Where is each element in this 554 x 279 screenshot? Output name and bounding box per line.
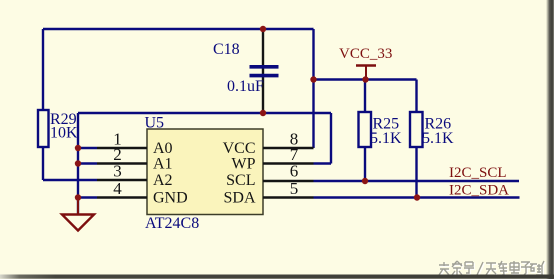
junction at GND row (75, 194, 81, 200)
wire I2C_SDA (314, 196, 520, 198)
svg-text:4: 4 (113, 179, 122, 198)
capacitor C18 (213, 29, 279, 113)
wire A0 row (78, 147, 97, 149)
svg-text:SCL: SCL (226, 172, 255, 189)
wire ground rail horizontal (78, 112, 331, 114)
resistor R25 (359, 80, 403, 182)
wire right vertical from top rail to pin8 (312, 29, 314, 148)
resistor R26 (410, 80, 454, 198)
svg-text:VCC_33: VCC_33 (339, 46, 392, 62)
svg-text:I2C_SCL: I2C_SCL (449, 165, 507, 181)
svg-text:5.1K: 5.1K (370, 130, 402, 147)
pin 6 SCL (226, 162, 313, 190)
svg-text:5: 5 (290, 179, 299, 198)
ground (62, 198, 94, 231)
svg-text:A1: A1 (153, 156, 173, 173)
junction at C18 bottom (260, 110, 266, 116)
wire A2 row from R29 (43, 179, 97, 181)
junction at A1 row (75, 160, 81, 166)
wire WP vertical (330, 113, 332, 164)
junction at VCC stem R25 (362, 76, 368, 82)
junction at R26 SDA (414, 194, 420, 200)
svg-text:A2: A2 (153, 172, 173, 189)
wire WP horizontal to pin7 (314, 162, 332, 164)
pin 3 A2 (97, 162, 173, 190)
svg-text:5.1K: 5.1K (422, 130, 454, 147)
pin 8 VCC (223, 130, 314, 158)
frame shadow right (546, 0, 554, 279)
op-amp U5 box AT24C8 (145, 115, 264, 233)
svg-text:C18: C18 (213, 41, 240, 58)
junction at A0 row (75, 145, 81, 151)
svg-text:0.1uF: 0.1uF (227, 78, 264, 95)
junction at R25 SCL (362, 178, 368, 184)
wire A1 row (78, 162, 97, 164)
pin 7 WP (232, 145, 314, 173)
svg-text:I2C_SDA: I2C_SDA (449, 183, 509, 199)
svg-text:WP: WP (232, 156, 256, 173)
pin 4 GND (97, 179, 188, 207)
wire GND row (78, 196, 97, 198)
junction at VCC rail left (310, 76, 316, 82)
svg-text:GND: GND (153, 190, 188, 207)
svg-text:AT24C8: AT24C8 (145, 215, 199, 232)
svg-text:SDA: SDA (223, 190, 255, 207)
wire I2C_SCL (314, 180, 520, 182)
svg-text:3: 3 (113, 162, 122, 181)
junction at C18 top (260, 26, 266, 32)
frame shadow bottom (0, 275, 554, 279)
svg-text:VCC: VCC (223, 140, 256, 157)
svg-text:U5: U5 (145, 115, 165, 132)
svg-text:10K: 10K (50, 125, 78, 142)
pin 2 A1 (97, 145, 173, 173)
svg-text:A0: A0 (153, 140, 173, 157)
watermark strokes (439, 261, 551, 276)
svg-text:6: 6 (290, 162, 299, 181)
pin 1 A0 (97, 130, 173, 158)
wire R29 bottom lead (42, 147, 44, 180)
wire ground vertical (77, 113, 79, 214)
power VCC_33 (339, 46, 392, 80)
wire VCC rail horizontal (314, 78, 417, 80)
wire top rail VCC (43, 28, 314, 30)
wire left vertical to R29 top (42, 29, 44, 110)
resistor R29 (38, 110, 78, 147)
pin 5 SDA (223, 179, 313, 207)
